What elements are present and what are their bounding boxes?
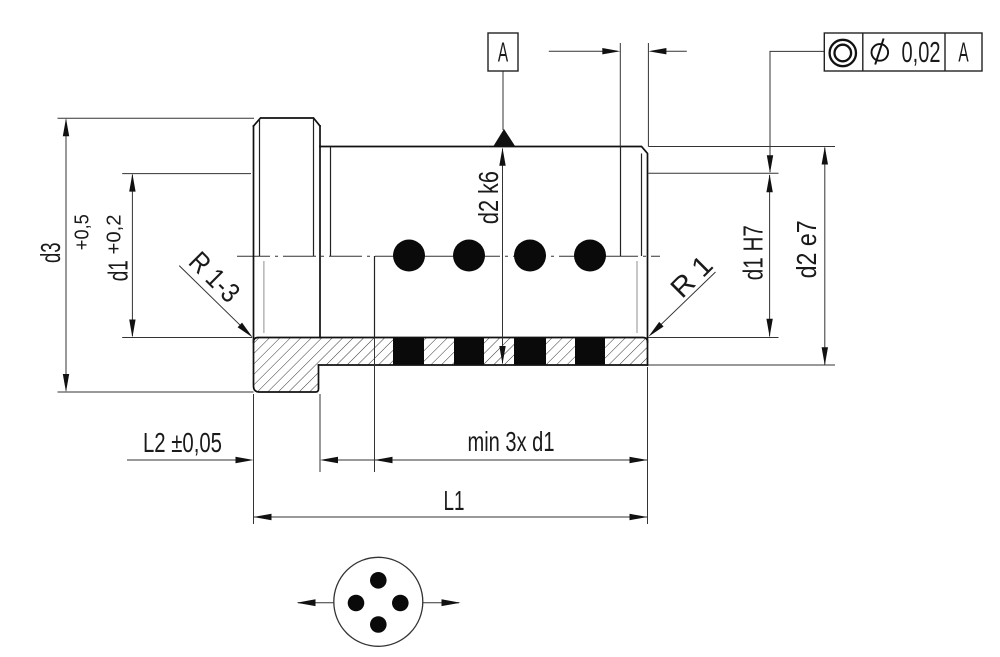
svg-text:0,02: 0,02 bbox=[902, 37, 941, 69]
svg-text:d2 e7: d2 e7 bbox=[791, 220, 822, 278]
svg-text:A: A bbox=[958, 37, 969, 68]
svg-text:A: A bbox=[498, 37, 509, 68]
svg-text:d2 k6: d2 k6 bbox=[473, 171, 504, 224]
svg-text:d1: d1 bbox=[103, 260, 134, 281]
svg-text:+0,2: +0,2 bbox=[104, 215, 126, 255]
svg-text:d1 H7: d1 H7 bbox=[738, 225, 769, 280]
svg-text:min 3x d1: min 3x d1 bbox=[468, 426, 555, 457]
svg-text:+0,5: +0,5 bbox=[72, 214, 94, 250]
svg-text:L1: L1 bbox=[444, 485, 465, 516]
svg-text:d3: d3 bbox=[35, 242, 66, 263]
svg-text:L2 ±0,05: L2 ±0,05 bbox=[143, 427, 222, 458]
